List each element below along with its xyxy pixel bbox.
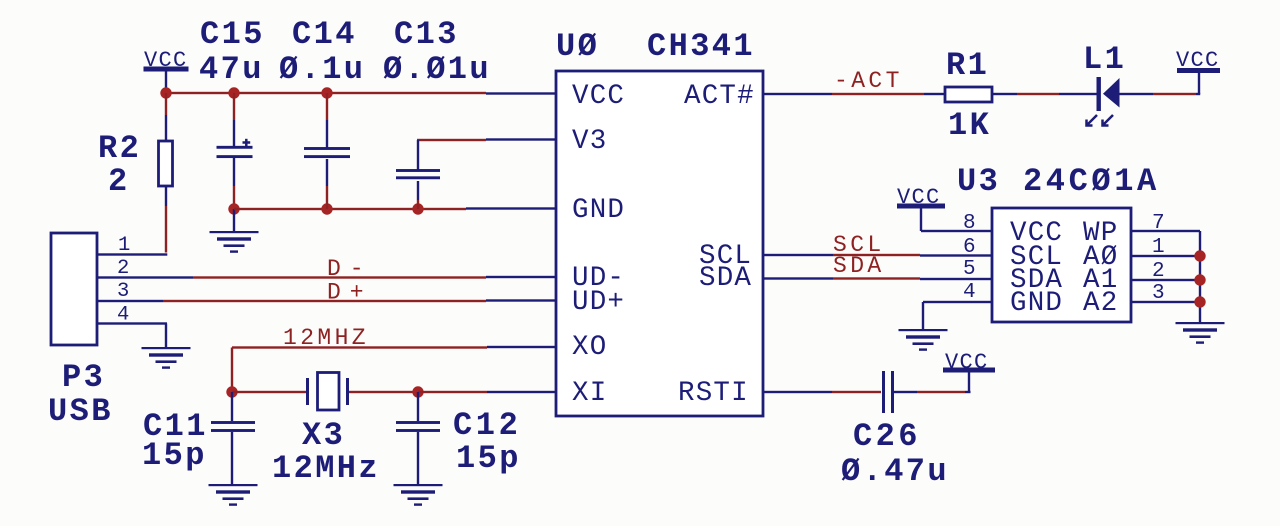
IC U3 box (992, 208, 1131, 322)
ground under C11 (209, 484, 258, 506)
svg-text:Ø.47u: Ø.47u (841, 453, 949, 490)
wire U3 pin 4 to ground (923, 301, 992, 303)
svg-text:6: 6 (963, 236, 976, 259)
wire XI red middle segment (349, 391, 418, 393)
svg-text:L1: L1 (1083, 41, 1126, 78)
power symbol VCC at RSTI (943, 350, 995, 375)
wire XO navy segment to U0 XO pin (487, 346, 556, 348)
wire navy from R2 bottom (165, 186, 167, 206)
svg-text:USB: USB (48, 393, 113, 430)
wire navy to U0 UD+ pin (486, 299, 556, 301)
svg-text:3: 3 (117, 280, 129, 303)
svg-text:Ø.1u: Ø.1u (279, 51, 365, 88)
wire P3 pin4 navy with corner down (97, 322, 167, 324)
node junction VCC bus at C15 (228, 87, 239, 98)
svg-text:4: 4 (963, 281, 976, 304)
svg-text:8: 8 (963, 212, 976, 235)
wire P3 pin1 navy (97, 253, 167, 255)
crystal X3 (306, 373, 349, 411)
node junction VCC bus at C14 (321, 87, 332, 98)
wire U3 pin 3 (1131, 301, 1200, 303)
node junction GND bus at C15 (228, 203, 239, 214)
node junction U3 pin2 (1194, 274, 1205, 285)
svg-text:-ACT: -ACT (834, 68, 903, 94)
wire GND bus navy segment to U0 GND pin (466, 207, 556, 209)
wire U3 pin 1 (1131, 255, 1200, 257)
wire D+ red segment (163, 300, 486, 302)
wire GND bus red segment (234, 208, 466, 210)
node junction U3 pin3 (1194, 296, 1205, 307)
wire red to LED (1017, 93, 1059, 95)
wire navy from GND junction down to ground (233, 209, 235, 231)
svg-text:XO: XO (572, 332, 607, 363)
wire navy from C14 bottom plate (326, 159, 328, 186)
capacitor C26 (882, 371, 894, 413)
svg-text:C13: C13 (394, 16, 459, 53)
wire SDA red segment (833, 277, 920, 279)
wire navy into R2 top (165, 115, 167, 141)
wire VCC bus red segment (165, 92, 486, 94)
wire red from VCC bus down to C15 (233, 93, 235, 120)
capacitor C11 (211, 421, 255, 432)
svg-text:XI: XI (572, 378, 607, 409)
svg-text:CH341: CH341 (647, 28, 755, 65)
svg-text:VCC: VCC (572, 81, 625, 112)
wire red from C15 into GND bus (233, 186, 235, 209)
wire XI navy segment to U0 XI pin (487, 391, 556, 393)
svg-text:12MHz: 12MHz (272, 450, 380, 487)
wire red from R2 down to USB pin 1 (165, 206, 167, 253)
wire XI red left segment (232, 391, 307, 393)
wire red to VCC corner (1153, 93, 1196, 95)
ground under P3 pin 4 (142, 347, 191, 369)
svg-text:D+: D+ (327, 280, 373, 306)
wire navy vertical bus right of U3 (1199, 231, 1201, 322)
wire RSTI red segment (832, 391, 881, 393)
wire SCL navy from U0 (763, 254, 833, 256)
svg-text:C12: C12 (453, 407, 521, 444)
wire navy from C15 bottom plate (233, 157, 235, 186)
svg-text:A2: A2 (1083, 288, 1118, 319)
ground under C15 (210, 231, 259, 253)
wire ACT# navy from U0 (763, 93, 832, 95)
wire red from C13 into GND bus (417, 200, 419, 209)
wire navy from junction down to C11 (231, 392, 233, 421)
svg-text:C26: C26 (853, 418, 921, 455)
wire red from C13 up-corner to V3 (417, 139, 486, 141)
svg-text:47u: 47u (199, 51, 264, 88)
node junction GND bus at C14 (321, 203, 332, 214)
wire navy from C12 down to ground (417, 432, 419, 484)
svg-text:X3: X3 (302, 417, 345, 454)
svg-text:R2: R2 (98, 130, 141, 167)
wire navy from C13 bottom plate (417, 181, 419, 200)
wire D- red segment (193, 276, 486, 278)
resistor R2 (159, 141, 173, 186)
wire navy after LED (1119, 93, 1153, 95)
svg-text:RSTI: RSTI (678, 378, 749, 409)
wire navy from junction down to C12 (417, 392, 419, 421)
wire navy into C15 top plate (233, 120, 235, 147)
svg-text:ACT#: ACT# (684, 81, 755, 112)
power symbol VCC (net at R2/C15 bus) (144, 48, 189, 73)
node junction VCC bus at R2 (160, 87, 171, 98)
svg-text:D-: D- (327, 256, 373, 282)
power symbol VCC at U3 (897, 185, 945, 210)
wire SCL red segment (833, 254, 920, 256)
svg-text:Ø.Ø1u: Ø.Ø1u (383, 51, 491, 88)
ground under C12 (394, 484, 443, 506)
svg-text:R1: R1 (946, 47, 989, 84)
wire red from C14 into GND bus (326, 186, 328, 209)
wire U3 pin 7 (1131, 230, 1200, 232)
wire XO red with corner down (232, 346, 487, 348)
svg-text:C15: C15 (200, 16, 265, 53)
wire VCC stub down from bar (165, 72, 167, 89)
svg-text:V3: V3 (572, 126, 607, 157)
svg-text:2: 2 (108, 163, 130, 200)
svg-text:GND: GND (1010, 288, 1063, 319)
svg-text:SDA: SDA (833, 253, 885, 279)
ground under U3 pin 4 (899, 329, 948, 351)
wire VCC bus navy segment to U0 VCC pin (486, 92, 556, 94)
capacitor C12 (396, 421, 440, 432)
svg-text:UD+: UD+ (572, 287, 625, 318)
svg-text:GND: GND (572, 195, 625, 226)
wire navy corner up to VCC (1196, 93, 1200, 95)
wire SCL navy to U3 pin 6 (920, 254, 992, 256)
svg-text:15p: 15p (456, 440, 521, 477)
wire red from VCC bus down to C14 (326, 93, 328, 120)
wire P3 pin2 navy (97, 276, 193, 278)
svg-text:P3: P3 (62, 359, 105, 396)
svg-text:SDA: SDA (699, 263, 752, 294)
LED L1 (1087, 77, 1120, 126)
wire navy into LED (1059, 93, 1097, 95)
wire U3 pin 2 (1131, 279, 1200, 281)
wire -ACT red segment (832, 93, 924, 95)
svg-text:UØ: UØ (556, 28, 599, 65)
resistor R1 (945, 87, 992, 102)
wire VCC stub down to U3 pin 8 (920, 209, 922, 232)
node junction U3 pin1 (1194, 250, 1205, 261)
capacitor C14 (304, 147, 350, 158)
wire red from VCC bus down to R2 (165, 93, 167, 115)
power symbol VCC at L1 (1176, 48, 1220, 73)
wire RSTI navy from U0 (763, 391, 832, 393)
svg-text:U3: U3 (957, 163, 1000, 200)
wire P3 pin3 navy (97, 300, 163, 302)
svg-text:5: 5 (963, 258, 976, 281)
connector P3 USB box (51, 233, 97, 345)
wire SDA navy to U3 pin 5 (920, 278, 992, 280)
svg-text:1K: 1K (948, 107, 991, 144)
wire SDA navy from U0 (763, 277, 833, 279)
wire navy V3 segment to U0 V3 pin (486, 138, 556, 140)
svg-text:24CØ1A: 24CØ1A (1023, 163, 1160, 200)
wire navy corner up to VCC at C26 (965, 391, 971, 393)
IC U0 box (556, 71, 763, 416)
wire navy after R1 (992, 93, 1017, 95)
wire navy to U0 UD- pin (486, 276, 556, 278)
wire red to VCC corner at C26 (917, 391, 965, 393)
wire navy into R1 (924, 93, 945, 95)
ground right of U3 (1176, 322, 1225, 344)
node junction GND bus at C13 (412, 203, 423, 214)
wire navy after C26 (894, 391, 917, 393)
node junction at C12/X3 (412, 386, 423, 397)
wire navy into C14 top plate (326, 120, 328, 148)
node junction at C11/X3 (226, 386, 237, 397)
capacitor C15 (polarized) (217, 139, 253, 158)
capacitor C13 (396, 169, 440, 179)
svg-text:C14: C14 (292, 16, 357, 53)
wire XI red right segment (418, 391, 487, 393)
svg-text:15p: 15p (142, 437, 207, 474)
wire navy from C11 down to ground (231, 432, 233, 484)
